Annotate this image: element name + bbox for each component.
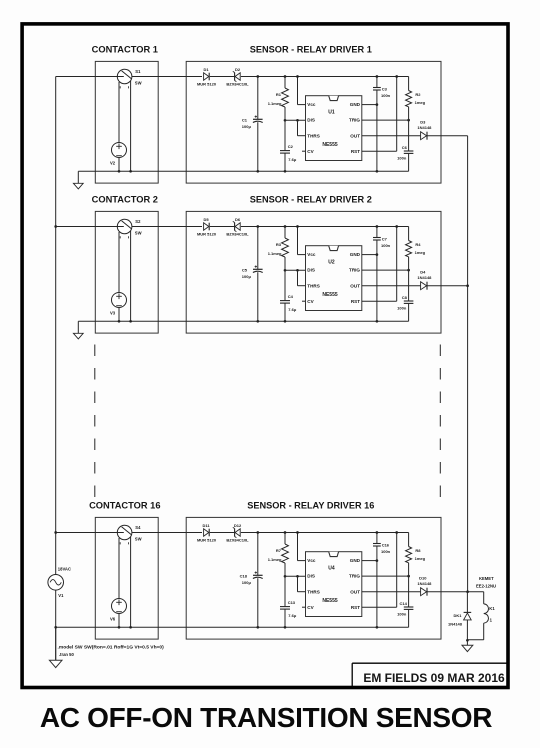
diode D10 1N4148 [417,575,432,595]
svg-text:C7: C7 [382,236,388,241]
wire THRS tie [297,120,299,135]
svg-text:CV: CV [307,299,314,304]
svg-text:SENSOR - RELAY DRIVER 2: SENSOR - RELAY DRIVER 2 [250,195,372,205]
wire [284,77,286,89]
svg-text:C5: C5 [242,267,248,272]
zener diode D12 [226,523,249,543]
junction [296,75,299,78]
capacitor C2 7.6μ [280,144,297,162]
svg-text:7.6μ: 7.6μ [288,307,297,312]
op-amp timer U U2 NE555 [306,246,362,311]
wire bottom ground rail [78,170,408,172]
wire CV stub [302,150,306,152]
wire TRIG net [362,269,409,271]
relay coil K1 KEMET EE2-12NU [467,576,496,640]
svg-text:1N4148: 1N4148 [417,275,432,280]
wire [257,227,259,270]
voltage source V2 [110,143,127,166]
svg-text:V1: V1 [58,593,64,598]
svg-text:100n: 100n [381,549,391,554]
wire bottom ground rail [78,320,408,322]
wire GND pin [362,104,377,106]
svg-text:C13: C13 [288,600,296,605]
wire left supply bus [55,77,57,575]
wire [284,227,286,239]
svg-text:THRS: THRS [307,133,320,138]
svg-text:MUR 5120: MUR 5120 [197,232,217,237]
wire [284,533,286,545]
svg-text:C4: C4 [288,294,294,299]
wire [257,533,259,576]
svg-text:Vcc: Vcc [307,102,316,107]
svg-text:BZX84C10L: BZX84C10L [226,82,249,87]
diode DK1 1N4148 (flyback) [448,612,471,626]
svg-text:EM FIELDS 09 MAR 2016: EM FIELDS 09 MAR 2016 [363,671,505,685]
continuation dashed line left [94,345,96,498]
wire bypass vertical [376,533,378,544]
svg-text:CV: CV [307,149,314,154]
diode D3 1N4148 [417,119,432,139]
svg-text:KEMET: KEMET [479,576,494,581]
wire top rail [56,226,202,228]
wire DIS net [285,575,306,577]
diode D5 [197,217,217,237]
svg-text:NE555: NE555 [322,142,338,148]
junction [296,575,299,578]
svg-text:1meg: 1meg [415,250,426,255]
svg-text:C8: C8 [402,295,408,300]
wire OUT net [362,285,421,287]
ground (row return) [77,171,79,183]
junction [376,531,379,534]
svg-text:CONTACTOR 16: CONTACTOR 16 [89,501,160,511]
AC source V1 18VAC [48,567,71,598]
junction [284,225,287,228]
junction [296,225,299,228]
junction [256,75,259,78]
svg-text:R7: R7 [276,548,282,553]
svg-text:NE555: NE555 [322,292,338,298]
voltage source V6 [110,599,127,622]
svg-text:D12: D12 [234,523,242,528]
junction [466,639,469,642]
svg-text:1meg: 1meg [415,100,426,105]
wire switch control right [130,537,132,627]
junction [466,284,469,287]
wire switch control right [130,231,132,321]
svg-text:DK1: DK1 [453,613,462,618]
svg-text:1N4148: 1N4148 [417,581,432,586]
svg-text:S1: S1 [135,69,141,74]
sensor box SENSOR - RELAY DRIVER 16 [186,517,441,639]
resistor R2 1meg [406,91,426,107]
svg-text:BZX84C10L: BZX84C10L [226,538,249,543]
svg-text:1N4148: 1N4148 [417,125,432,130]
svg-text:C3: C3 [382,86,388,91]
wire [408,533,410,547]
junction [296,119,299,122]
svg-text:C6: C6 [402,145,408,150]
contactor box CONTACTOR 2 [95,211,158,333]
svg-text:THRS: THRS [307,589,320,594]
junction [118,626,121,629]
svg-text:MUR 5120: MUR 5120 [197,82,217,87]
svg-text:K1: K1 [489,606,495,611]
junction [256,225,259,228]
switch S4 (contactor) [117,525,141,545]
contactor box CONTACTOR 1 [95,61,158,183]
switch S1 (contactor) [117,69,141,89]
svg-text:7.6μ: 7.6μ [288,613,297,618]
capacitor C7 100n (bypass) [373,236,391,248]
wire bypass vertical [376,227,378,238]
wire Vcc feed [297,533,299,561]
svg-text:1N4148: 1N4148 [448,622,463,627]
capacitor C1 (polarised) [242,115,263,128]
svg-text:C1: C1 [242,117,248,122]
svg-text:D1: D1 [203,67,209,72]
diode D4 1N4148 [417,269,432,289]
svg-text:C16: C16 [382,542,390,547]
svg-text:100μ: 100μ [242,580,252,585]
continuation dashed line right [439,345,441,498]
svg-text:D11: D11 [202,523,210,528]
ground (row return) [77,321,79,333]
svg-text:V2: V2 [110,160,116,165]
junction [376,75,379,78]
wire top rail [56,532,202,534]
title block box [352,662,508,664]
capacitor C16 100n (bypass) [373,542,391,554]
wire TRIG net [362,119,409,121]
svg-text:Vcc: Vcc [307,558,316,563]
svg-text:R4: R4 [415,242,421,247]
junction [284,531,287,534]
svg-text:D10: D10 [419,575,427,580]
svg-text:7.6μ: 7.6μ [288,157,297,162]
wire CV stub [302,300,306,302]
junction [407,575,410,578]
svg-text:R8: R8 [415,548,421,553]
svg-text:Vcc: Vcc [307,252,316,257]
capacitor C8 100n [397,295,413,311]
svg-text:RST: RST [351,605,360,610]
svg-text:OUT: OUT [350,133,360,138]
wire [257,77,259,120]
svg-text:U2: U2 [328,260,335,266]
svg-text:AC OFF-ON TRANSITION SENSOR: AC OFF-ON TRANSITION SENSOR [40,702,492,733]
svg-text:V6: V6 [110,616,116,621]
svg-text:100μ: 100μ [242,274,252,279]
wire CV stub [302,606,306,608]
capacitor C18 (polarised) [240,571,263,585]
diode D1 [197,67,217,87]
wire Vcc feed [297,227,299,255]
svg-text:DIS: DIS [307,574,315,579]
svg-text:C18: C18 [240,573,248,578]
junction [407,269,410,272]
resistor R7 1.1meg [268,544,289,563]
wire relay feed [468,591,484,593]
svg-text:100n: 100n [397,156,407,161]
svg-text:DIS: DIS [307,268,315,273]
svg-text:SENSOR - RELAY DRIVER 16: SENSOR - RELAY DRIVER 16 [247,501,374,511]
wire bottom ground rail [56,626,409,628]
wire THRS tie [297,270,299,285]
op-amp timer U U4 NE555 [306,552,362,617]
wire DIS net [285,119,306,121]
junction [395,225,398,228]
svg-text:D6: D6 [235,217,241,222]
svg-text:BZX84C10L: BZX84C10L [226,232,249,237]
svg-text:CONTACTOR 2: CONTACTOR 2 [92,195,158,205]
svg-text:1.1meg: 1.1meg [268,557,282,562]
svg-text:D4: D4 [420,269,426,274]
wire switch control left [118,538,120,627]
capacitor C5 (polarised) [242,265,263,279]
svg-text:100n: 100n [397,612,407,617]
wire [408,227,410,241]
junction [284,75,287,78]
svg-text:OUT: OUT [350,589,360,594]
wire output bus to relay [467,136,469,592]
wire OUT net [362,135,421,137]
diode D11 [197,523,217,543]
junction [54,225,57,228]
svg-text:SW: SW [135,231,142,236]
wire RST tie [396,77,398,152]
svg-text:.tran 50: .tran 50 [59,652,75,657]
contactor box CONTACTOR 16 [95,517,158,639]
wire GND pin [362,254,377,256]
zener diode D6 [226,217,249,237]
resistor R3 1.1meg [268,238,289,257]
capacitor C3 100n (bypass) [373,86,391,98]
svg-text:THRS: THRS [307,283,320,288]
svg-text:C2: C2 [288,144,294,149]
wire RST tie [396,533,398,608]
svg-text:SW: SW [135,537,142,542]
svg-text:.model SW SW(Ron=.01 Roff=1G V: .model SW SW(Ron=.01 Roff=1G Vt=0.5 Vh=0… [58,644,165,650]
svg-text:1meg: 1meg [415,556,426,561]
svg-text:R3: R3 [276,242,282,247]
capacitor C4 7.6μ [280,294,297,312]
svg-text:GND: GND [350,558,361,563]
wire TRIG net [362,575,409,577]
junction [118,170,121,173]
wire THRS tie [297,576,299,591]
svg-text:R1: R1 [276,92,282,97]
junction [407,119,410,122]
resistor R4 1meg [406,241,426,257]
wire RST tie [396,227,398,302]
wire flyback branch [466,592,468,613]
svg-text:R2: R2 [415,92,421,97]
sensor box SENSOR - RELAY DRIVER 2 [186,211,441,333]
svg-text:100n: 100n [381,243,391,248]
resistor R1 1.1meg [268,88,289,107]
ground (relay) [466,640,468,645]
zener diode D2 [226,67,249,87]
wire switch control left [118,82,120,171]
junction [256,531,259,534]
svg-text:100n: 100n [381,93,391,98]
svg-text:D2: D2 [235,67,241,72]
svg-text:100n: 100n [397,306,407,311]
svg-text:DIS: DIS [307,118,315,123]
svg-text:TRIG: TRIG [349,574,360,579]
junction [296,269,299,272]
svg-text:18VAC: 18VAC [58,567,71,572]
svg-text:S4: S4 [135,525,141,530]
svg-text:TRIG: TRIG [349,118,360,123]
svg-text:SW: SW [135,81,142,86]
svg-text:V3: V3 [110,310,116,315]
svg-text:1.1meg: 1.1meg [268,101,282,106]
wire switch control left [118,232,120,321]
svg-text:S2: S2 [135,219,141,224]
svg-text:RST: RST [351,149,360,154]
wire GND pin [362,560,377,562]
capacitor C13 7.6μ [280,600,297,618]
svg-text:OUT: OUT [350,283,360,288]
wire top rail [56,76,202,78]
svg-text:GND: GND [350,102,361,107]
svg-text:RST: RST [351,299,360,304]
svg-text:C14: C14 [400,601,408,606]
svg-text:100μ: 100μ [242,124,252,129]
border frame [22,24,508,688]
svg-text:1.1meg: 1.1meg [268,251,282,256]
op-amp timer U U1 NE555 [306,96,362,161]
svg-text:U4: U4 [328,566,335,572]
svg-text:CONTACTOR 1: CONTACTOR 1 [92,45,158,55]
junction [376,225,379,228]
svg-text:U1: U1 [328,110,335,116]
capacitor C14 100n [397,601,413,617]
wire Vcc feed [297,77,299,105]
wire OUT net [362,591,421,593]
resistor R8 1meg [406,547,426,563]
svg-text:D3: D3 [420,119,426,124]
svg-text:NE555: NE555 [322,598,338,604]
voltage source V3 [110,293,127,316]
svg-text:D5: D5 [203,217,209,222]
junction [395,531,398,534]
wire DIS net [285,269,306,271]
junction [296,531,299,534]
svg-text:MUR 5120: MUR 5120 [197,538,217,543]
wire switch control right [130,81,132,171]
wire bypass vertical [376,77,378,88]
junction [118,320,121,323]
junction [395,75,398,78]
ground (main) [55,627,57,660]
switch S2 (contactor) [117,219,141,239]
capacitor C6 100n [397,145,413,161]
sensor box SENSOR - RELAY DRIVER 1 [186,61,441,183]
svg-text:CV: CV [307,605,314,610]
wire [408,77,410,91]
svg-text:EE2-12NU: EE2-12NU [476,583,496,588]
svg-text:SENSOR - RELAY DRIVER 1: SENSOR - RELAY DRIVER 1 [250,45,372,55]
svg-text:GND: GND [350,252,361,257]
svg-text:TRIG: TRIG [349,268,360,273]
